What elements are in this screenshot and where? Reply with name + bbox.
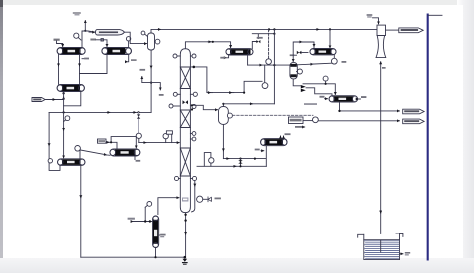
wire: reflux line back to column — [190, 67, 262, 93]
label: small stub right of HX1 bottom nozzle — [82, 58, 84, 60]
wire: separator overhead long header to cooling tower — [151, 29, 377, 33]
instrument circles at lower joint — [174, 176, 178, 180]
heat exchanger E-104 — [58, 159, 86, 166]
wire: F1 to HX1 top-left — [57, 41, 63, 47]
wire: riser dip tube inside tank — [380, 240, 382, 252]
wire: HX1 bottom left downcomer to HX3 — [58, 55, 60, 85]
wire: HX2 bottom product arrow left — [128, 55, 129, 62]
instrument circle right of flash drum — [297, 69, 302, 74]
pump circle above HX4 right — [79, 151, 81, 159]
heat exchanger E-101 — [102, 48, 132, 55]
label: reboiler side stub — [159, 234, 161, 236]
instrument circle above condensate line — [323, 76, 328, 81]
wire: reboiler vapor return to column — [158, 198, 179, 215]
label: HX8 left stub — [320, 96, 325, 98]
wire: column bottom outlet drop — [185, 213, 187, 258]
pump circle on column bottoms product — [197, 196, 203, 202]
reboiler E-107 (vertical exchanger) — [153, 216, 159, 248]
wire: top right stub off navy header — [428, 14, 442, 16]
wire: HX1 bottom right downcomer to HX3 — [79, 55, 81, 85]
wire: drain to HX8 feed jog — [306, 88, 332, 96]
label: product banner 1 — [403, 109, 424, 114]
wire: HX5 bottom stub with label — [134, 156, 136, 160]
pump circle on drop to tower feed — [136, 133, 141, 138]
label: condensate line text — [304, 103, 317, 105]
valve left of HX7 — [294, 54, 297, 56]
wire: HX2 bottom-left to HX3 top-right — [80, 55, 108, 74]
wire: arrowheads on overhead header — [158, 28, 161, 30]
label: HX8 right stub — [361, 96, 366, 98]
instrument circles at first joint — [173, 92, 177, 96]
cooling tower hourglass body — [376, 36, 386, 58]
node: purge tee on downcomer — [150, 82, 152, 84]
wire: HX1 outlet riser to reactor feed — [82, 31, 96, 48]
wire: pump discharge to HX5 — [80, 150, 106, 155]
instrument circle on left leg — [48, 159, 52, 163]
instrument circles at second joint — [169, 104, 173, 108]
wire: condenser outlet downcomer — [247, 55, 249, 66]
wire: drum top stub — [222, 104, 224, 107]
wire: HX6 top-right vent arrows — [280, 136, 282, 139]
wire: mixed feed header y112 — [49, 111, 151, 113]
heat exchanger E-106 — [261, 139, 288, 146]
label: box on second product line — [289, 117, 304, 124]
label: steam stub between exchangers — [90, 39, 96, 41]
wire: HX8 bottoms to product banner — [340, 102, 400, 111]
wire: flash drum overhead to pump — [297, 63, 313, 66]
instrument circle at reboiler inlet — [147, 202, 152, 207]
wire: CW into tower box — [373, 18, 379, 24]
column packing section 3 — [180, 148, 190, 176]
column packing section 2 — [180, 110, 190, 128]
heat exchanger E-108 — [310, 49, 336, 55]
valve on condenser vent — [256, 40, 260, 43]
cooling tower box — [377, 25, 386, 35]
wire: tower riser from tank — [380, 62, 382, 252]
valve glyph inside column transition — [183, 100, 189, 104]
label: stub F1 into HX1 — [54, 39, 60, 41]
instrument circle on HX2 right — [126, 37, 130, 41]
wire: reboiler bottom drop — [155, 248, 157, 258]
label: steam to reboiler — [128, 218, 135, 220]
wire: steam to HX2 with valve tick — [96, 40, 107, 47]
wire: HX3 bottom-right out and down — [64, 92, 81, 106]
wire: drum bottoms downcomer — [222, 124, 224, 158]
wire: flash drum bottoms — [293, 79, 300, 86]
reactor R-101 (horizontal bullet vessel) — [96, 29, 125, 35]
instrument circle TI near reactor feed — [74, 33, 79, 38]
wire: tower feed line — [139, 142, 180, 144]
wire: feed to HX3 bottom-left — [46, 97, 64, 100]
wire: vent line with arrow up — [84, 21, 86, 32]
instrument circle right of separator — [155, 39, 160, 44]
sump tank liquid hatch — [365, 241, 399, 258]
pump circle on tower feed — [163, 133, 168, 138]
reflux drum V-101 (small vertical drum) — [219, 107, 229, 125]
sump tank ears — [358, 233, 403, 237]
wire: condenser vent loop to header — [252, 34, 274, 49]
instrument dashed drop to pump circle — [268, 29, 270, 58]
valve box on tower feed — [166, 131, 172, 134]
wire: purge branch right with down arrow — [151, 83, 160, 90]
wire: reflux pump suction — [264, 65, 266, 83]
wire: second product line to banner — [318, 120, 399, 122]
wire: condenser bottom left stub label — [226, 55, 228, 58]
instrument circle on drum right — [227, 113, 232, 118]
pump circle at HX7 outlet — [333, 55, 335, 59]
wire: arrow into reactor — [89, 31, 95, 33]
valve on separator-bottoms drop — [138, 112, 140, 133]
wire: column overhead to condenser — [185, 42, 230, 49]
wire: left leg down to HX4 — [49, 112, 60, 170]
pump circle reflux — [262, 83, 268, 89]
wire: riser x274 — [273, 29, 275, 103]
wire: condensate line to flash drum — [248, 64, 290, 66]
wire: branch down with instrument to HX4 top-left — [63, 92, 65, 158]
valve glyph on bottoms product line — [203, 198, 207, 200]
instrument circles at column top joint — [173, 54, 177, 58]
label: small stub under box — [295, 126, 302, 128]
distillation column T-100 shell — [180, 49, 190, 213]
wire: reactor outlet to separator — [124, 32, 146, 43]
label: recycle banner top right — [399, 28, 423, 33]
drain symbol at bottom header end — [183, 259, 188, 262]
heat exchanger E-102 — [57, 85, 85, 92]
node: junctions on x274 riser — [273, 33, 275, 35]
sump tank walls — [364, 233, 400, 259]
navy header line — [427, 15, 429, 260]
wire: purge branch left with up arrow — [142, 77, 151, 83]
wire: tower exit to recycle banner — [386, 29, 399, 31]
wire: utility into HX5 top-left — [106, 142, 117, 149]
black arrows at drum drain — [301, 85, 306, 88]
instrument dashed signal line from drum — [233, 114, 314, 116]
wire: separator bottoms downcomer — [150, 50, 152, 112]
condenser E-103 — [226, 49, 253, 55]
wire: column lower right gauge leg — [192, 181, 195, 212]
node: header junctions — [268, 28, 270, 30]
wire: drum vapor line to riser — [223, 103, 274, 105]
heat exchanger E-109 — [329, 96, 358, 102]
wire: bottom header — [81, 256, 185, 258]
wire: HX5 top loop — [111, 137, 136, 148]
label: small stub near HX6 riser — [255, 149, 260, 151]
instrument circle on second product line — [303, 120, 313, 122]
instrument circle above separator — [141, 31, 145, 35]
valve on drop between draw line and bottoms line — [240, 159, 242, 167]
wire: header branch down to HX7 right — [329, 29, 331, 48]
label: FEED inlet banner — [32, 98, 45, 102]
label: CW stub at cooling tower — [367, 14, 373, 16]
wire: tank liquid surface line — [364, 239, 400, 241]
label: product banner 2 — [403, 119, 424, 124]
flash drum V-102 — [290, 62, 297, 79]
wire: HX4 bottom-right long drop — [80, 165, 82, 257]
label: vent text — [73, 12, 81, 13]
wire: reboiler steam feed — [133, 221, 135, 223]
heat exchanger E-100 — [57, 48, 85, 55]
label: column bottom section text — [182, 198, 188, 202]
wire: drum draw to HX6 riser — [223, 146, 266, 166]
heat exchanger E-105 — [110, 149, 140, 156]
separator V-100 (vertical drum) — [148, 33, 155, 50]
wire: tank outlet stub — [400, 253, 404, 255]
pump loop near column bottom — [204, 153, 211, 167]
wire: column side draw to reflux drum — [190, 105, 217, 109]
column packing section 1 — [180, 67, 190, 89]
wire: HX7 loop to flash drum — [293, 42, 314, 62]
wire: condensate header into HX8 — [303, 84, 335, 95]
wire: bottoms cross line under drum — [197, 165, 266, 167]
instrument circles right of mid column — [192, 132, 196, 136]
label: utility box left of HX5 — [98, 139, 107, 143]
